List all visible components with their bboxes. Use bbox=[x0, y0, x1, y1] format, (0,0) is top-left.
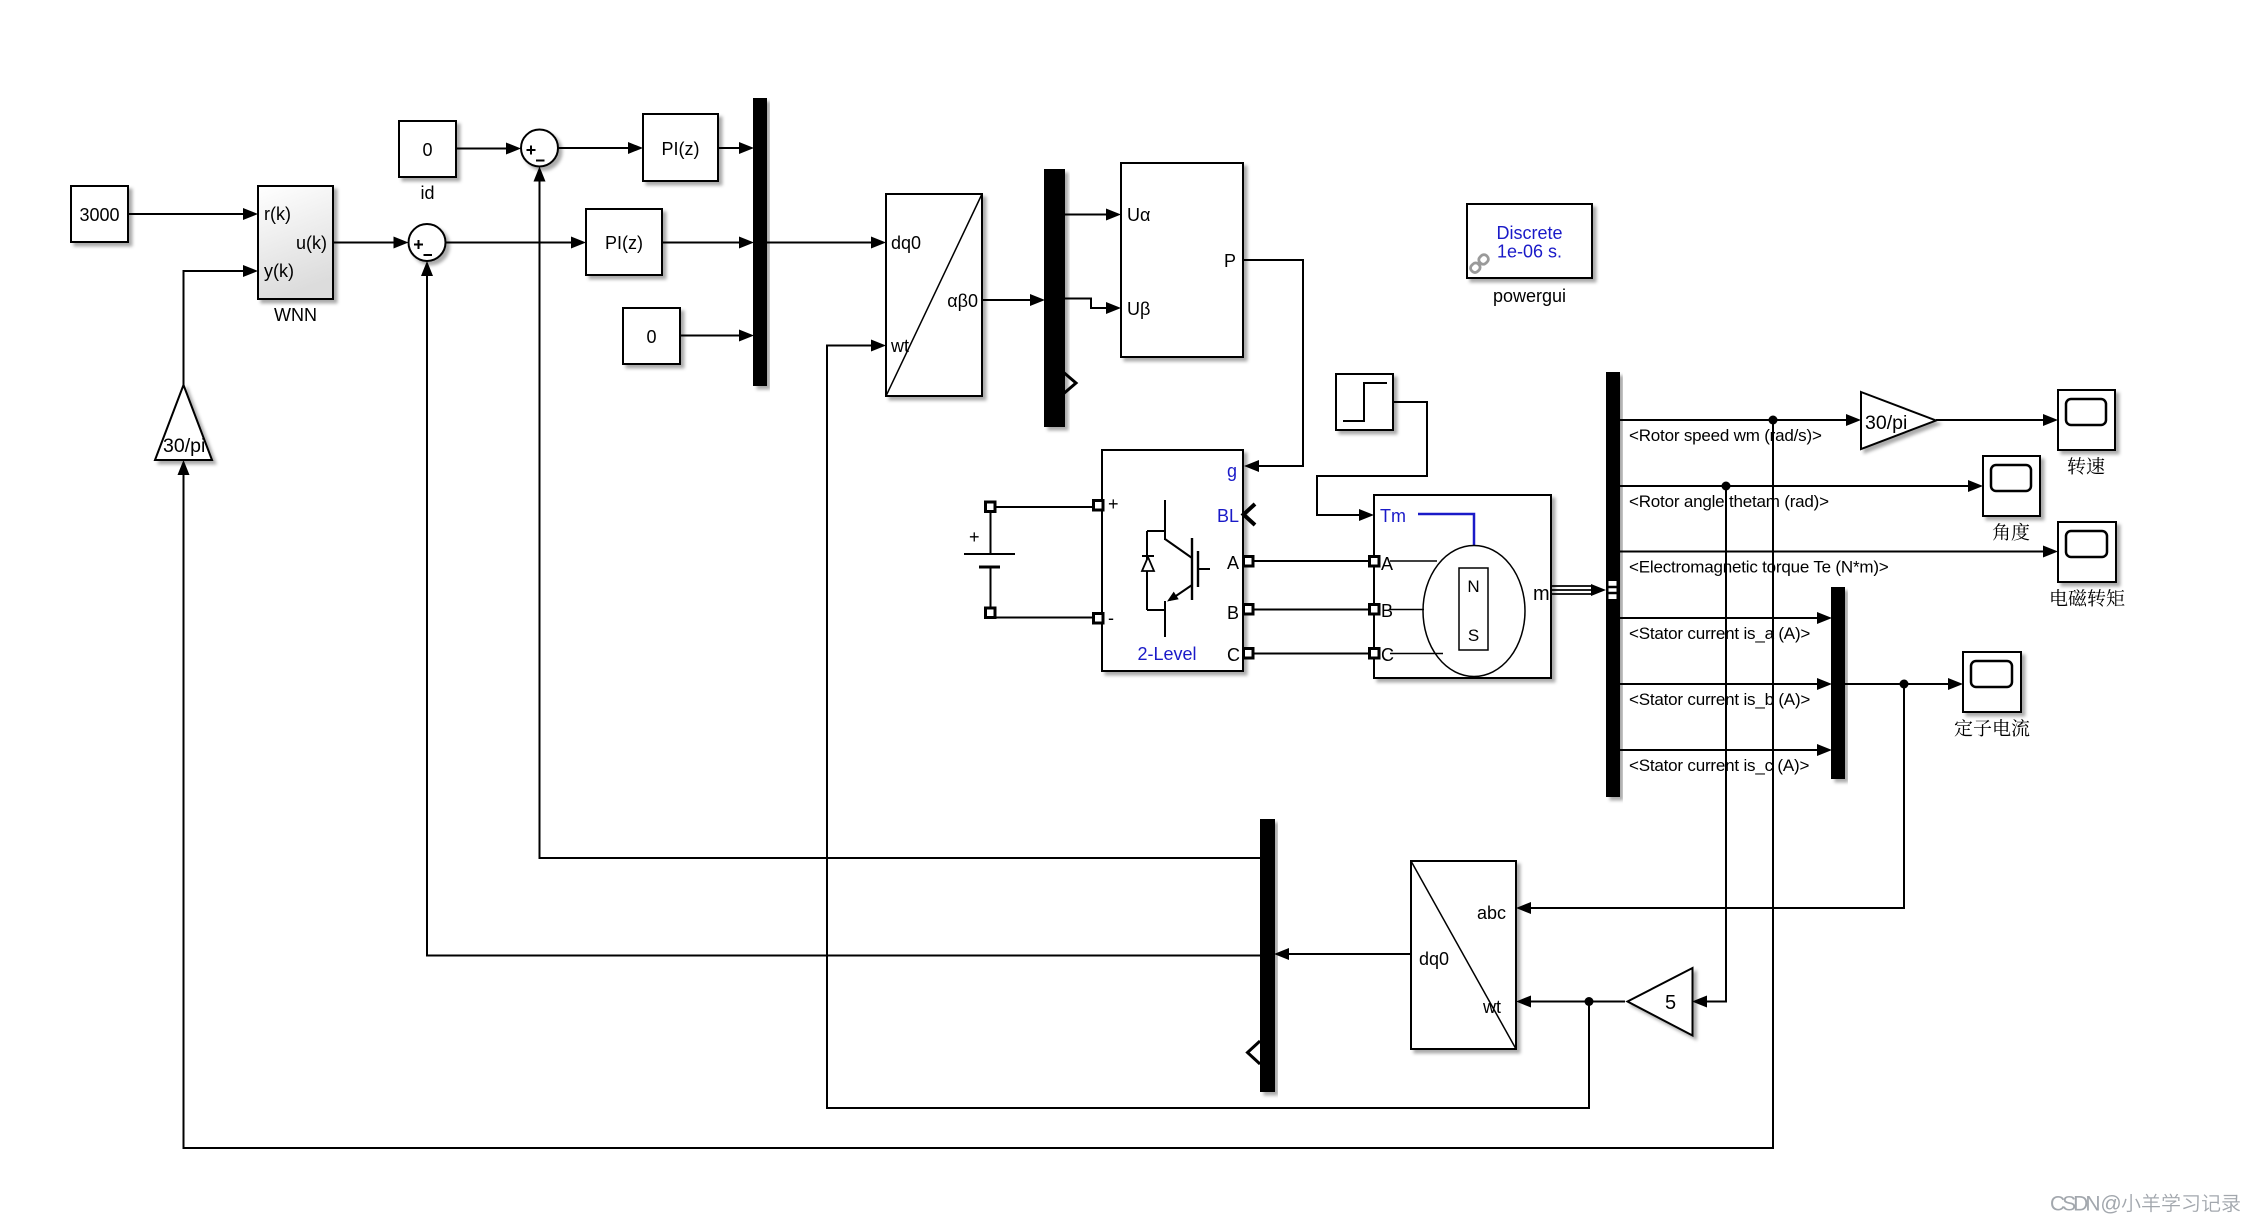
motor port A square bbox=[1370, 557, 1380, 567]
unconnected demux output chevron bbox=[1248, 1041, 1261, 1064]
svg-text:PI(z): PI(z) bbox=[662, 139, 700, 159]
svg-text:0: 0 bbox=[422, 140, 432, 160]
wire converter A to motor A bbox=[1253, 560, 1369, 562]
wire PI(z)1 to mux1 bbox=[718, 142, 754, 154]
wire battery minus to converter bbox=[996, 617, 1093, 619]
svg-text:+: + bbox=[969, 527, 980, 547]
svg-text:2-Level: 2-Level bbox=[1137, 644, 1196, 664]
wire torque signal bbox=[1619, 546, 2058, 558]
svg-text:y(k): y(k) bbox=[264, 261, 294, 281]
svg-text:<Stator current is_a (A)>: <Stator current is_a (A)> bbox=[1629, 624, 1810, 643]
wire demux q to sum2 feedback bbox=[421, 261, 1261, 956]
converter port C square bbox=[1244, 649, 1254, 659]
converter port - square bbox=[1094, 614, 1104, 624]
wire mux2 to Ubeta bbox=[1064, 299, 1121, 315]
converter block 2-Level bbox=[1102, 450, 1243, 671]
wire id to sum1 bbox=[456, 143, 521, 155]
svg-text:C: C bbox=[1381, 645, 1394, 665]
label rotor speed bbox=[1629, 426, 1822, 445]
wire P to gate g bbox=[1243, 260, 1303, 472]
wire constant 0 to mux1 bbox=[680, 330, 754, 342]
junction wt branch bbox=[1585, 997, 1594, 1006]
unconnected output chevron on mux2 bbox=[1062, 371, 1076, 395]
label speed scope (zhuansu) bbox=[2068, 457, 2105, 475]
wire converter C to motor C bbox=[1253, 653, 1369, 655]
gain block 30/pi bbox=[1861, 392, 1936, 449]
PI controller PI(z) d-axis bbox=[643, 114, 718, 181]
wire mux1 to dq0 transform bbox=[766, 237, 886, 249]
scope stator current bbox=[1963, 652, 2021, 712]
svg-text:5: 5 bbox=[1665, 992, 1676, 1014]
PI controller PI(z) q-axis bbox=[586, 209, 662, 275]
bus wire m to bus selector bbox=[1551, 584, 1606, 596]
label rotor angle bbox=[1629, 492, 1829, 511]
label torque scope (dianci zhuanju) bbox=[2051, 589, 2124, 607]
wire gain left to WNN y(k) bbox=[184, 265, 259, 385]
junction rotor angle bbox=[1722, 482, 1731, 491]
scope angle bbox=[1983, 456, 2040, 516]
constant block 3000 bbox=[71, 186, 128, 242]
svg-text:dq0: dq0 bbox=[891, 233, 921, 253]
svg-text:BL: BL bbox=[1217, 506, 1239, 526]
mux mux3 stator currents bbox=[1832, 588, 1844, 778]
wire demux d to sum1 feedback bbox=[534, 167, 1262, 859]
svg-text:-: - bbox=[1108, 608, 1114, 628]
label stator current c bbox=[1629, 756, 1809, 775]
wire stator current a bbox=[1619, 612, 1832, 624]
svg-text:PI(z): PI(z) bbox=[605, 233, 643, 253]
svg-text:g: g bbox=[1227, 461, 1237, 481]
sum junction sum2 bbox=[409, 224, 446, 261]
svg-text:A: A bbox=[1381, 554, 1393, 574]
svg-text:αβ0: αβ0 bbox=[947, 291, 978, 311]
label id bbox=[420, 183, 434, 203]
svg-text:CSDN @: CSDN @ bbox=[2050, 1193, 2120, 1216]
wire rotor speed signal bbox=[1619, 414, 1861, 426]
bus selector bbox=[1607, 373, 1619, 796]
motor port B square bbox=[1370, 605, 1380, 615]
wire sum2 to PI(z)2 bbox=[446, 237, 587, 249]
svg-text:30/pi: 30/pi bbox=[1865, 412, 1907, 434]
svg-text:30/pi: 30/pi bbox=[163, 435, 205, 457]
bus selector input indicator bbox=[1609, 581, 1617, 599]
label electromagnetic torque bbox=[1629, 558, 1889, 577]
svg-text:WNN: WNN bbox=[274, 305, 317, 325]
wire alphabeta0 to mux2 bbox=[982, 294, 1045, 306]
svg-text:m: m bbox=[1533, 583, 1550, 605]
converter port A square bbox=[1244, 557, 1254, 567]
wire rotor angle signal bbox=[1619, 480, 1983, 492]
watermark CSDN bbox=[2050, 1193, 2240, 1216]
wire stator current c bbox=[1619, 744, 1832, 756]
label angle scope (jiaodu) bbox=[1993, 523, 2030, 541]
gain block 5 bbox=[1628, 968, 1693, 1036]
svg-text:wt: wt bbox=[890, 336, 909, 356]
PMSM motor block bbox=[1374, 495, 1551, 678]
SVPWM block Ualpha Ubeta P bbox=[1121, 163, 1243, 357]
converter port B square bbox=[1244, 605, 1254, 615]
svg-text:1e-06 s.: 1e-06 s. bbox=[1497, 242, 1562, 262]
wire stator currents to abc input bbox=[1516, 684, 1904, 914]
svg-text:<Rotor speed wm (rad/s)>: <Rotor speed wm (rad/s)> bbox=[1629, 426, 1822, 445]
svg-text:wt: wt bbox=[1482, 997, 1501, 1017]
svg-text:+: + bbox=[1108, 494, 1119, 514]
wire PI(z)2 to mux1 bbox=[662, 237, 754, 249]
svg-text:A: A bbox=[1227, 553, 1239, 573]
label 2-Level bbox=[1137, 644, 1196, 664]
wire gain to speed scope bbox=[1936, 414, 2058, 426]
label stator current b bbox=[1629, 690, 1810, 709]
constant block 0 bbox=[623, 308, 680, 364]
svg-text:powergui: powergui bbox=[1493, 286, 1566, 306]
label powergui bbox=[1493, 286, 1566, 306]
svg-text:id: id bbox=[420, 183, 434, 203]
gain block 30/pi left bbox=[155, 385, 212, 460]
junction current scope branch bbox=[1900, 680, 1909, 689]
sum junction sum1 bbox=[521, 130, 558, 167]
svg-text:3000: 3000 bbox=[79, 205, 119, 225]
transform block abc to dq0 bbox=[1411, 861, 1516, 1049]
svg-text:N: N bbox=[1467, 577, 1479, 596]
constant block id value 0 bbox=[399, 121, 456, 177]
scope torque bbox=[2058, 522, 2116, 582]
svg-text:dq0: dq0 bbox=[1419, 949, 1449, 969]
wire gain5 to wt bbox=[1516, 996, 1625, 1008]
svg-text:<Rotor angle thetam (rad)>: <Rotor angle thetam (rad)> bbox=[1629, 492, 1829, 511]
svg-text:Uβ: Uβ bbox=[1127, 299, 1150, 319]
DC voltage source battery bbox=[964, 502, 1015, 618]
transform block dq0 to alphabeta0 bbox=[886, 194, 982, 396]
mux mux1 bbox=[754, 99, 766, 385]
wire mux2 to Ualpha bbox=[1064, 209, 1121, 221]
svg-text:<Electromagnetic torque Te (N*: <Electromagnetic torque Te (N*m)> bbox=[1629, 558, 1889, 577]
wire battery plus to converter bbox=[996, 506, 1093, 508]
powergui block bbox=[1467, 204, 1592, 278]
mux mux2 bbox=[1045, 170, 1064, 426]
label m output bbox=[1533, 583, 1550, 605]
svg-text:S: S bbox=[1468, 626, 1479, 645]
svg-text:r(k): r(k) bbox=[264, 204, 291, 224]
label current scope (dingzi dianliu) bbox=[1955, 719, 2030, 737]
wire converter B to motor B bbox=[1253, 609, 1369, 611]
svg-text:0: 0 bbox=[646, 327, 656, 347]
wire speed feedback to gain 30/pi left bbox=[178, 420, 1774, 1148]
svg-text:C: C bbox=[1227, 645, 1240, 665]
junction rotor speed bbox=[1769, 416, 1778, 425]
wire stator current b bbox=[1619, 678, 1832, 690]
wire 3000 to WNN r(k) bbox=[128, 208, 258, 220]
wire step to Tm bbox=[1317, 402, 1427, 521]
motor port C square bbox=[1370, 649, 1380, 659]
wire rotor angle to gain5 bbox=[1692, 486, 1726, 1008]
svg-text:B: B bbox=[1227, 603, 1239, 623]
svg-text:Discrete: Discrete bbox=[1496, 223, 1562, 243]
wire WNN u(k) to sum2 bbox=[333, 237, 409, 249]
svg-text:<Stator current is_b (A)>: <Stator current is_b (A)> bbox=[1629, 690, 1810, 709]
wire abc dq0 output to demux bbox=[1274, 948, 1411, 960]
scope speed bbox=[2058, 390, 2115, 450]
wire mux3 to current scope bbox=[1844, 678, 1963, 690]
svg-text:<Stator current is_c (A)>: <Stator current is_c (A)> bbox=[1629, 756, 1809, 775]
label stator current a bbox=[1629, 624, 1810, 643]
svg-text:Tm: Tm bbox=[1380, 506, 1406, 526]
subsystem WNN bbox=[258, 186, 333, 299]
svg-text:abc: abc bbox=[1477, 903, 1506, 923]
label WNN bbox=[274, 305, 317, 325]
step block bbox=[1336, 374, 1393, 430]
wire sum1 to PI(z)1 bbox=[558, 142, 643, 154]
converter port + square bbox=[1094, 501, 1104, 511]
wire wt branch to dq0 transform wt bbox=[827, 340, 1589, 1109]
unconnected BL input chevron bbox=[1244, 504, 1256, 525]
svg-text:B: B bbox=[1381, 601, 1393, 621]
svg-text:P: P bbox=[1224, 251, 1236, 271]
svg-text:Uα: Uα bbox=[1127, 205, 1150, 225]
svg-text:u(k): u(k) bbox=[296, 233, 327, 253]
demux bbox=[1261, 820, 1274, 1091]
